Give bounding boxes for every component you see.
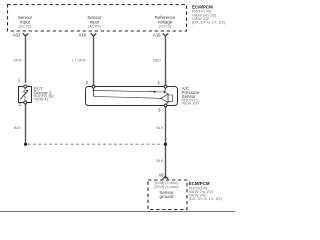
ECT Sensor 2 name label bbox=[34, 86, 55, 101]
page border bottom bbox=[0, 211, 235, 213]
junction dot ECT ground corner bbox=[24, 143, 27, 146]
node Sensor ground bbox=[154, 181, 179, 199]
internal signal arrow bbox=[154, 91, 157, 93]
node Reference voltage (VCC2) bbox=[155, 15, 176, 29]
wire BLK from ACP pin 3 down to A9 bbox=[165, 107, 167, 179]
svg-text:ORN: ORN bbox=[13, 59, 22, 63]
A/C Pressure Sensor body bbox=[86, 87, 178, 106]
amp ground diagonal to pin3 bbox=[166, 102, 169, 104]
node Sensor input (ACPS) bbox=[87, 15, 102, 29]
svg-text:LT GRN: LT GRN bbox=[72, 59, 86, 63]
wire dashed sensor-ground link bbox=[28, 143, 164, 145]
svg-text:[SG3] (4 door): [SG3] (4 door) bbox=[154, 185, 179, 189]
ECM/PCM sensor ground connector box (bottom) bbox=[148, 180, 187, 210]
terminal arrow A19 bbox=[163, 33, 169, 36]
ECM/PCM label (top right) bbox=[192, 4, 226, 24]
ECT Sensor 2 body bbox=[19, 87, 32, 103]
internal wire lower line pin2 to amp output bbox=[94, 96, 161, 98]
internal wire pin1 node stub bbox=[164, 88, 167, 92]
svg-text:(ACPS): (ACPS) bbox=[88, 25, 102, 29]
svg-text:A16: A16 bbox=[79, 32, 87, 37]
A/C Pressure Sensor name label bbox=[182, 86, 201, 105]
wire ORN A32 to ECT sensor pin 1 bbox=[25, 35, 27, 84]
internal wire upper line pin2 to pin1 node bbox=[94, 90, 165, 92]
wire RED A19 to ACP sensor pin 1 bbox=[165, 35, 167, 86]
svg-text:(VCC2): (VCC2) bbox=[159, 25, 172, 29]
wire LT GRN A16 to ACP sensor pin 2 bbox=[93, 35, 95, 86]
amplifier triangle bbox=[161, 94, 168, 102]
svg-text:A32: A32 bbox=[13, 32, 21, 37]
junction dot ground link to BLK wire bbox=[164, 143, 167, 146]
svg-text:ECM/PCM: ECM/PCM bbox=[192, 4, 213, 9]
svg-text:BLK: BLK bbox=[14, 126, 22, 130]
svg-text:A9: A9 bbox=[158, 173, 164, 178]
ECM/PCM label (bottom right) bbox=[189, 181, 223, 201]
wire BLK from ECT pin 2 down to ground link bbox=[25, 104, 27, 144]
terminal arrow A16 bbox=[91, 33, 97, 36]
svg-text:VIEW 41: VIEW 41 bbox=[34, 98, 49, 102]
terminal arrow A9 bbox=[163, 176, 169, 179]
terminal arrow A32 bbox=[23, 33, 29, 36]
amp supply diagonal from pin1 node bbox=[165, 92, 169, 94]
svg-text:(ECT2): (ECT2) bbox=[19, 25, 32, 29]
svg-text:(DX, DX G, LX, EX): (DX, DX G, LX, EX) bbox=[192, 21, 226, 25]
internal wire pin2 drop bbox=[93, 88, 95, 97]
svg-text:A19: A19 bbox=[153, 32, 161, 37]
svg-text:BLK: BLK bbox=[156, 159, 164, 163]
ECM/PCM connector box (top) bbox=[8, 5, 187, 32]
thermistor symbol inside ECT sensor bbox=[23, 88, 26, 101]
node Sensor input (ECT2) bbox=[18, 15, 33, 29]
svg-text:BLK: BLK bbox=[156, 126, 164, 130]
svg-text:VIEW 100: VIEW 100 bbox=[182, 101, 199, 105]
svg-text:RED: RED bbox=[153, 59, 161, 63]
svg-text:(DX, DX G, LX, EX): (DX, DX G, LX, EX) bbox=[189, 197, 223, 201]
svg-text:ground: ground bbox=[159, 194, 174, 199]
amp right bracket bbox=[168, 95, 173, 102]
